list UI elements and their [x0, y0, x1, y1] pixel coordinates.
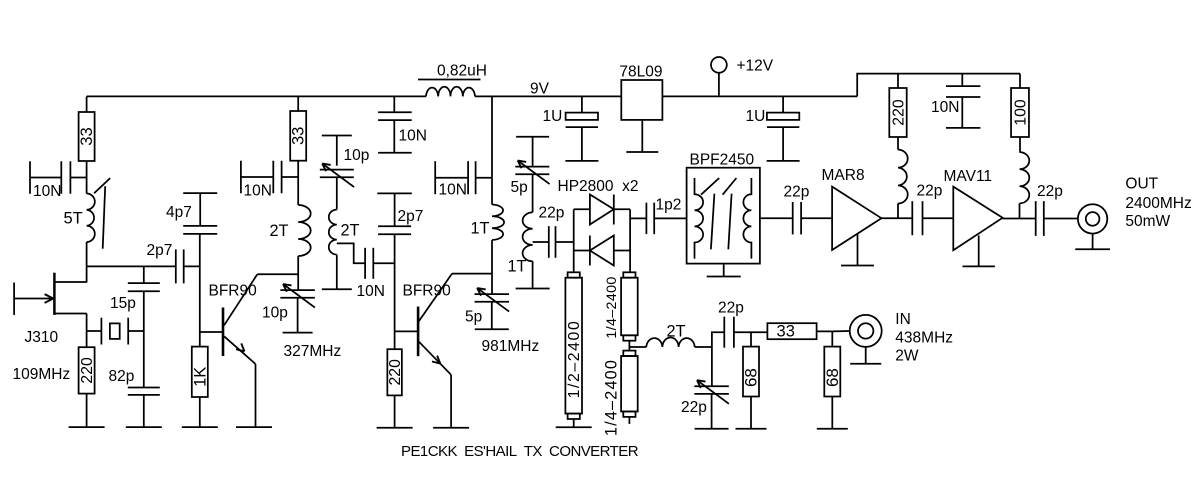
ground Q3 emitter — [433, 427, 469, 429]
wire node B to 2T top — [297, 177, 299, 205]
wire MAR8 ground lead — [857, 234, 859, 266]
svg-text:BFR90: BFR90 — [403, 283, 452, 300]
wire R10 to choke — [1019, 137, 1021, 152]
resistor R1 33 — [78, 112, 96, 161]
stub 1/4-2400 lower — [621, 351, 638, 417]
svg-text:15p: 15p — [110, 295, 136, 312]
wire 5T bottom to drain node — [86, 242, 88, 283]
capacitor C10 10N — [378, 112, 412, 120]
wire stub2b open end — [628, 417, 630, 424]
wire C18 to MAV11 — [923, 217, 954, 219]
capacitor C7 10N interstage — [365, 248, 373, 279]
ground BPF — [707, 276, 741, 278]
svg-text:1/4–2400: 1/4–2400 — [604, 276, 620, 338]
trimmer capacitor 5p stage3 — [475, 288, 510, 312]
ground MAR8 — [841, 265, 874, 267]
svg-text:1K: 1K — [191, 367, 209, 387]
svg-text:10N: 10N — [439, 182, 467, 199]
ground bar resonator3 — [516, 288, 550, 290]
wire choke to MAV11 output node — [1019, 203, 1021, 218]
connector J1 IN — [850, 315, 882, 347]
resistor R3 1K — [191, 347, 209, 397]
svg-text:1p2: 1p2 — [656, 197, 682, 214]
amplifier U3 MAR8 — [832, 187, 881, 250]
wire 78L09 ground lead — [641, 120, 643, 152]
resistor R4 33 — [290, 111, 308, 161]
ground R2 — [69, 426, 105, 428]
svg-text:438MHz: 438MHz — [895, 330, 953, 347]
resistor R7 33 — [767, 323, 816, 341]
wire node D down to 22p trimmer — [711, 347, 713, 386]
svg-text:1U: 1U — [543, 108, 563, 125]
crystal X1 109MHz — [101, 318, 128, 345]
svg-text:10N: 10N — [931, 99, 959, 116]
wire 15p to 82p — [143, 291, 145, 387]
wire C17 to ground — [961, 97, 963, 128]
ground 22p trimmer — [695, 428, 729, 430]
wire BPF to 22p C16 — [760, 217, 793, 219]
wire rail down to C17 — [961, 74, 963, 87]
svg-text:HP2800 x2: HP2800 x2 — [558, 178, 639, 195]
ground R8 — [817, 428, 848, 430]
svg-text:BPF2450: BPF2450 — [690, 152, 755, 169]
wire 0.82uH underline — [418, 79, 481, 81]
wire resonator3 tap — [533, 241, 549, 243]
wire C10 to ground — [393, 120, 395, 153]
wire D2 cathode lead — [574, 250, 590, 252]
ground 1U right — [767, 160, 800, 162]
svg-text:J310: J310 — [25, 329, 59, 346]
wire resonator3 top lead — [532, 137, 534, 167]
transistor Q1 J310 — [14, 273, 87, 315]
capacitor C14 1p2 — [646, 203, 654, 234]
terminal bar C9 left end — [434, 161, 436, 194]
svg-text:OUT: OUT — [1125, 176, 1158, 193]
wire R5 to ground — [394, 395, 396, 427]
svg-text:68: 68 — [823, 368, 842, 387]
svg-text:50mW: 50mW — [1125, 213, 1170, 230]
capacitor C19 22p out — [1036, 201, 1044, 236]
inductor 2T resonator2 — [329, 210, 337, 255]
wire 2p7 to base column — [184, 265, 200, 267]
connector J2 OUT — [1078, 204, 1107, 233]
inductor 2T stage2 tank — [298, 205, 311, 256]
wire node D up to 22p row — [712, 332, 724, 347]
wire MAR8 output — [881, 217, 912, 219]
trimmer capacitor 10p stage2 — [280, 284, 315, 308]
wire rail down to R4 — [297, 96, 299, 111]
capacitor C4 2p7 — [176, 249, 184, 283]
wire 2p7 top lead — [394, 193, 396, 226]
ground C17 — [946, 127, 980, 129]
svg-text:1T: 1T — [508, 258, 527, 276]
svg-text:BFR90: BFR90 — [209, 283, 258, 300]
svg-text:0,82uH: 0,82uH — [437, 63, 487, 80]
wire 10N C6 right lead — [282, 176, 299, 178]
wire stub junction — [629, 341, 646, 351]
wire rail down to R9 — [897, 74, 899, 88]
svg-text:2400MHz: 2400MHz — [1125, 195, 1191, 212]
wire base column — [199, 234, 201, 347]
wire base lead Q3 — [395, 330, 419, 332]
wire node to R2 top — [86, 331, 88, 347]
inductor BPF left coil — [695, 178, 704, 259]
wire source corner — [86, 314, 88, 332]
resistor R6 68 — [742, 347, 761, 397]
svg-text:10N: 10N — [357, 283, 385, 300]
ground R5 — [377, 427, 413, 429]
wire base lead Q2 — [200, 331, 223, 333]
svg-text:9V: 9V — [530, 81, 550, 98]
svg-text:220: 220 — [387, 359, 404, 386]
wire 2T2 bottom to ground bar — [336, 255, 338, 290]
terminal bar C6 left end — [240, 161, 242, 194]
svg-text:1U: 1U — [746, 108, 766, 125]
wire R1 to node A — [86, 161, 88, 178]
wire C7 to base column stage3 — [373, 262, 394, 264]
wire node F down to R8 — [831, 331, 833, 346]
wire C16 to MAR8 — [801, 217, 832, 219]
svg-text:68: 68 — [742, 368, 761, 387]
svg-text:33: 33 — [290, 127, 308, 145]
trimmer capacitor 10p resonator2 — [320, 164, 354, 188]
wire node F to IN connector — [832, 330, 849, 332]
capacitor C15 22p input — [724, 317, 734, 348]
svg-text:MAR8: MAR8 — [822, 167, 865, 184]
svg-text:22p: 22p — [1037, 183, 1063, 200]
terminal bar resonator2 top — [322, 135, 352, 137]
adjuster slash 5T — [94, 178, 110, 249]
adjuster slash BPF left — [701, 178, 719, 249]
wire R4 to node B — [297, 161, 299, 177]
wire Q3 emitter to ground — [450, 375, 452, 428]
svg-text:2T: 2T — [667, 323, 686, 341]
wire rail down to node C — [491, 96, 493, 177]
wire D1 anode lead — [574, 208, 590, 210]
wire 10N C9 right lead — [476, 177, 492, 179]
capacitor C18 22p — [912, 201, 922, 235]
wire 1K to ground — [199, 397, 201, 427]
ground 1K — [182, 426, 218, 428]
ground R6 — [736, 428, 767, 430]
svg-text:2T: 2T — [270, 222, 289, 240]
wire BPF ground lead — [723, 264, 725, 277]
wire 5p trimmer to bar — [491, 302, 493, 330]
ground stub1 — [556, 426, 592, 428]
svg-text:2p7: 2p7 — [147, 242, 173, 259]
svg-text:10N: 10N — [399, 128, 427, 145]
resistor R2 220 — [79, 347, 97, 393]
svg-text:22p: 22p — [681, 399, 707, 416]
svg-text:10p: 10p — [344, 147, 370, 164]
wire mixer output lead — [630, 217, 646, 219]
wire 1T2 bottom to ground bar — [532, 261, 534, 288]
svg-text:78L09: 78L09 — [619, 64, 662, 81]
ground C10 — [378, 152, 412, 154]
svg-text:2T: 2T — [341, 222, 360, 240]
capacitor C17 10N — [946, 86, 980, 97]
wire coupling row to 15p — [143, 266, 145, 283]
inductor 2T input — [646, 337, 694, 347]
resistor R5 220 — [387, 349, 404, 395]
wire R6 to ground — [750, 397, 752, 429]
resistor R10 100 — [1011, 88, 1029, 137]
wire D2 anode lead — [614, 250, 630, 252]
capacitor C16 22p — [793, 202, 801, 235]
svg-text:33: 33 — [777, 323, 795, 341]
svg-text:33: 33 — [78, 127, 96, 145]
wire 9V rail left segment — [87, 95, 426, 97]
wire resonator2 tap — [337, 243, 365, 263]
terminal bar resonator3 top — [516, 136, 549, 138]
wire 9V rail middle segment — [475, 95, 621, 97]
wire 10N C1 right lead — [70, 177, 86, 179]
wire mixer right rail to stub2a — [629, 251, 632, 273]
inductor 1T stage3 tank — [492, 205, 504, 241]
adjuster slash BPF right — [723, 178, 737, 249]
wire node A to 5T top — [86, 178, 88, 194]
resistor R9 220 — [889, 88, 907, 137]
ground MAV11 — [963, 265, 995, 267]
wire R2 to ground — [86, 394, 88, 428]
svg-text:22p: 22p — [917, 183, 943, 200]
ground Q2 emitter — [236, 426, 272, 428]
wire 10N C1 left lead — [30, 177, 61, 179]
svg-text:22p: 22p — [784, 184, 810, 201]
wire C19 to OUT connector — [1044, 218, 1078, 220]
wire MAV11 output — [1003, 218, 1036, 220]
wire rail right of 78L09 — [662, 95, 857, 97]
wire rail down to R10 — [1019, 74, 1021, 88]
svg-text:1/4–2400: 1/4–2400 — [602, 359, 620, 436]
svg-text:1T: 1T — [471, 220, 490, 238]
wire R8 to ground — [831, 397, 833, 429]
ground 78L09 — [626, 151, 658, 153]
wire trimmer to 1T2 top — [532, 174, 534, 212]
transistor Q2 BFR90 — [223, 274, 257, 364]
svg-text:10p: 10p — [262, 305, 288, 322]
wire node C to 1T top — [491, 178, 493, 205]
wire 1T bottom to collector node — [491, 240, 493, 294]
wire C15 to node E — [734, 331, 751, 333]
capacitor C9 10N — [468, 161, 476, 194]
ground IN connector — [850, 363, 881, 365]
svg-text:327MHz: 327MHz — [284, 343, 342, 360]
diode D1 HP2800 — [590, 195, 614, 225]
wire D1 cathode lead — [614, 208, 630, 210]
wire 1p2 to BPF — [654, 217, 686, 219]
ground 1U left — [565, 160, 598, 162]
wire drain node to coupling row — [87, 265, 176, 267]
wire trimmer to 2T2 top — [336, 177, 338, 209]
svg-text:220: 220 — [891, 99, 908, 126]
capacitor C13 1U right — [767, 96, 799, 160]
ground bar 10p trimmer — [283, 332, 313, 334]
capacitor C8 2p7 — [378, 226, 411, 234]
capacitor C6 10N — [273, 161, 281, 194]
wire choke to MAR8 output node — [897, 204, 899, 219]
inductor 1T resonator3 — [523, 212, 533, 261]
ground OUT connector — [1075, 248, 1110, 250]
wire 10N C9 left lead — [435, 177, 468, 179]
terminal bar C1 left end — [29, 161, 31, 194]
svg-text:IN: IN — [895, 311, 911, 328]
wire mixer left rail to stub1 — [573, 251, 575, 273]
svg-text:82p: 82p — [109, 368, 135, 385]
svg-text:+12V: +12V — [737, 58, 774, 75]
inductor 5T — [87, 194, 95, 243]
capacitor C5 4p7 — [183, 226, 217, 234]
wire rail corner up to top-right rail — [857, 74, 1020, 97]
svg-text:5T: 5T — [64, 210, 83, 228]
terminal bar 2p7 top — [377, 192, 412, 194]
wire 22p trimmer to ground — [711, 394, 713, 429]
ground bar 5p trimmer — [475, 328, 509, 330]
svg-text:981MHz: 981MHz — [482, 338, 540, 355]
wire 10p trimmer to bar — [297, 298, 299, 333]
svg-text:109MHz: 109MHz — [13, 366, 71, 383]
regulator U2 78L09 — [621, 80, 662, 120]
wire IN connector ground lead — [865, 347, 867, 364]
wire rail down to C10 — [393, 96, 395, 112]
svg-text:10N: 10N — [244, 183, 272, 200]
svg-text:5p: 5p — [511, 179, 528, 196]
svg-text:4p7: 4p7 — [166, 204, 192, 221]
wire 10N C6 left lead — [241, 176, 273, 178]
wire Q3 collector to tank — [452, 273, 492, 275]
wire input coil to node D — [695, 346, 712, 348]
wire node E down to R6 — [750, 332, 752, 346]
terminal bar 4p7 top — [183, 192, 217, 194]
amplifier U4 MAV11 — [953, 187, 1002, 251]
svg-text:22p: 22p — [718, 300, 744, 317]
capacitor C11 22p LO — [549, 226, 556, 258]
wire Q2 emitter to ground — [255, 364, 257, 427]
wire base column stage3 — [394, 234, 396, 349]
wire OUT connector ground lead — [1092, 234, 1094, 250]
inductor choke MAR8 — [898, 150, 908, 204]
capacitor C2 15p — [128, 283, 160, 291]
wire MAV11 ground lead — [978, 235, 980, 266]
ground 82p — [126, 426, 162, 428]
filter FL1 BPF2450 box — [687, 168, 760, 264]
svg-text:1/2–2400: 1/2–2400 — [566, 320, 583, 399]
capacitor C12 1U left — [566, 96, 598, 160]
trimmer capacitor 22p input — [694, 380, 729, 404]
svg-text:100: 100 — [1013, 99, 1030, 126]
wire crystal right lead — [128, 330, 144, 332]
wire C11 to mixer — [556, 241, 574, 243]
wire rail down to R1 — [86, 96, 88, 112]
svg-text:PE1CKK ES'HAIL TX CONVERTER: PE1CKK ES'HAIL TX CONVERTER — [401, 443, 639, 460]
capacitor C1 10N — [61, 161, 70, 194]
inductor choke MAV11 — [1020, 152, 1030, 203]
wire 4p7 top lead — [199, 193, 201, 226]
wire resonator2 top lead — [336, 136, 338, 166]
svg-text:10N: 10N — [33, 183, 61, 200]
diode D2 HP2800 — [590, 236, 614, 266]
wire node E to R7 — [751, 331, 768, 333]
wire 82p to ground — [143, 395, 145, 427]
wire mixer right rail — [629, 209, 631, 250]
svg-text:2p7: 2p7 — [398, 208, 424, 225]
trimmer capacitor 5p resonator3 — [515, 161, 549, 185]
wire R9 to choke — [897, 137, 899, 150]
stub 1/4-2400 upper — [621, 272, 638, 340]
wire stub1 to ground — [573, 419, 575, 427]
stub 1/2-2400 — [565, 272, 582, 419]
svg-text:220: 220 — [79, 357, 96, 384]
wire R7 to node F — [816, 330, 832, 332]
transistor Q3 BFR90 — [418, 274, 452, 375]
svg-text:2W: 2W — [895, 348, 919, 365]
svg-text:MAV11: MAV11 — [944, 168, 993, 185]
wire mixer left rail — [573, 209, 575, 250]
inductor L1 0.82uH — [426, 87, 475, 97]
wire Q2 collector to tank — [257, 273, 298, 275]
wire crystal left lead — [87, 330, 102, 332]
svg-text:22p: 22p — [539, 205, 565, 222]
ground bar resonator2 — [322, 288, 352, 290]
svg-text:5p: 5p — [465, 309, 482, 326]
inductor BPF right coil — [743, 178, 751, 259]
capacitor C3 82p — [128, 388, 160, 395]
resistor R8 68 — [823, 347, 842, 397]
wire 2T bottom to collector node — [297, 256, 299, 290]
power +12V terminal — [711, 57, 727, 96]
